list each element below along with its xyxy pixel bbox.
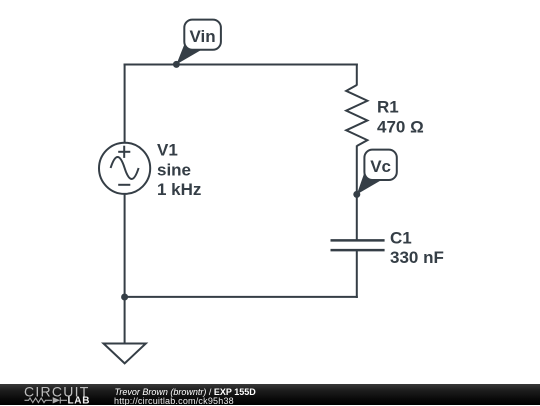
node junction dot gnd (121, 294, 128, 301)
svg-text:470 Ω: 470 Ω (377, 118, 424, 137)
node Vin dot (173, 61, 180, 68)
svg-text:V1: V1 (157, 140, 178, 159)
footer bar (0, 384, 540, 405)
capacitor C1 (331, 240, 385, 250)
wire left lower (124, 194, 126, 299)
svg-text:1 kHz: 1 kHz (157, 180, 201, 199)
wire bottom net gnd (124, 296, 358, 298)
wire right upper (356, 64, 358, 86)
wire top net Vin (124, 64, 358, 66)
flag Vin (176, 20, 221, 65)
label R1 values (377, 98, 424, 137)
wire ground stub (124, 297, 126, 344)
node Vc dot (353, 191, 360, 198)
svg-text:LAB: LAB (68, 395, 91, 405)
svg-text:sine: sine (157, 161, 191, 180)
svg-text:330 nF: 330 nF (390, 248, 444, 267)
footer attribution text (115, 388, 256, 397)
svg-text:Vc: Vc (370, 157, 391, 176)
svg-text:Vin: Vin (190, 27, 216, 46)
label V1 values (157, 140, 201, 199)
voltage source V1 (99, 143, 150, 194)
wire left upper (124, 64, 126, 144)
resistor R1 (346, 85, 367, 146)
wire right lower (356, 250, 358, 298)
ground symbol (104, 344, 146, 364)
flag Vc (357, 150, 397, 195)
CircuitLab logo (24, 385, 96, 405)
wire right middle (356, 146, 358, 241)
svg-text:C1: C1 (390, 228, 412, 247)
svg-text:R1: R1 (377, 98, 399, 117)
footer url (114, 397, 234, 406)
label C1 values (390, 228, 444, 267)
